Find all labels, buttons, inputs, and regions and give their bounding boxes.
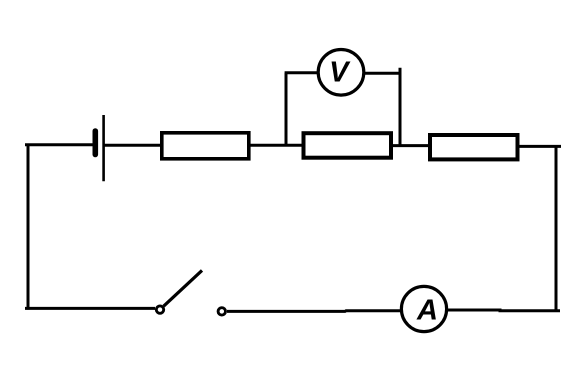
wire voltmeter branch right vertical <box>399 68 402 147</box>
wire R1 to R2 <box>250 144 303 147</box>
wire voltmeter top-right horizontal <box>364 72 401 75</box>
wire battery to R1 <box>104 144 161 147</box>
wire voltmeter top-left horizontal <box>285 71 318 74</box>
wire voltmeter branch left vertical <box>285 73 288 146</box>
wire switch to ammeter <box>227 309 401 313</box>
wire left vertical <box>27 144 30 310</box>
voltmeter V1 circle <box>318 50 364 96</box>
wire bottom-left horizontal <box>25 307 155 310</box>
svg-text:V: V <box>329 57 351 89</box>
wire bottom-right ammeter to corner <box>448 309 560 313</box>
ammeter A1 circle <box>401 286 446 331</box>
wire R2 to R3 <box>391 144 430 147</box>
switch S1 lever arm <box>164 270 202 306</box>
wire top-left horizontal <box>25 143 93 146</box>
resistor R1 <box>162 133 249 159</box>
wire R3 to top-right corner <box>517 145 561 148</box>
resistor R2 <box>304 133 392 158</box>
switch S1 right terminal circle <box>218 308 225 315</box>
svg-text:A: A <box>416 295 438 327</box>
wire right vertical <box>555 146 558 311</box>
battery B1 negative plate (short thick bar) <box>93 131 99 155</box>
battery B1 positive plate (long thin line) <box>102 115 105 181</box>
switch S1 left terminal circle <box>156 306 163 313</box>
resistor R3 <box>430 135 518 159</box>
